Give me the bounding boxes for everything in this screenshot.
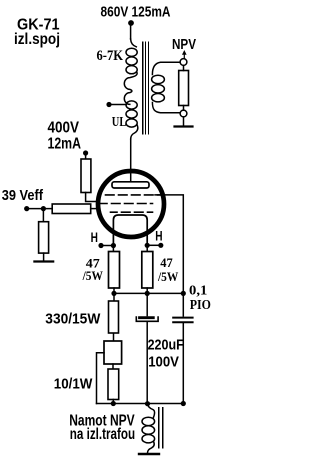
svg-text:0,1: 0,1 bbox=[189, 284, 207, 299]
svg-text:860V 125mA: 860V 125mA bbox=[101, 4, 171, 21]
resistor R 330/15W bbox=[109, 301, 119, 333]
terminal H left dot bbox=[98, 243, 103, 248]
resistor R 47/5W left bbox=[109, 252, 120, 289]
resistor R-grid horizontal bbox=[52, 204, 90, 214]
wire junction down to 39Veff resistor bbox=[42, 209, 44, 222]
inductor L NPV winding bbox=[148, 404, 155, 418]
transformer T1 core bbox=[143, 42, 149, 134]
wire bus to 330 resistor bbox=[113, 293, 116, 341]
tube grid row 1 (screen) bbox=[106, 194, 163, 196]
node bottom bus middle bbox=[145, 401, 150, 406]
transformer T1 primary top half (6-7K winding) bbox=[131, 39, 137, 47]
node UL tap terminal dot bbox=[106, 102, 111, 107]
svg-text:/5W: /5W bbox=[157, 269, 178, 284]
node 39Veff terminal dot bbox=[24, 206, 29, 211]
node bottom bus right bbox=[181, 401, 186, 406]
node 860V terminal dot bbox=[128, 20, 134, 26]
wire grid resistor to tube bbox=[91, 208, 99, 210]
resistor R 10/1W bbox=[108, 369, 119, 400]
transformer T1 secondary winding (NPV) bbox=[152, 62, 180, 74]
wire NPV bottom to ground bbox=[183, 117, 185, 126]
svg-text:330/15W: 330/15W bbox=[45, 311, 101, 328]
ground 39Veff bbox=[34, 260, 53, 262]
node bottom bus left bbox=[111, 401, 116, 406]
tube filament bbox=[113, 215, 147, 246]
node filament left junction bbox=[111, 243, 116, 248]
node bus left bbox=[111, 291, 116, 296]
svg-text:UL: UL bbox=[112, 115, 127, 130]
svg-text:100V: 100V bbox=[148, 353, 179, 370]
NPV leader arrow bbox=[183, 53, 185, 59]
wire 10/1W to bottom bus bbox=[112, 400, 114, 404]
wire anode lead from transformer to plate bbox=[130, 139, 132, 182]
inductor L core bbox=[159, 408, 163, 449]
node 400V terminal dot bbox=[83, 150, 88, 155]
wire 39Veff terminal to junction bbox=[27, 208, 53, 210]
tube grid row 3 bbox=[111, 211, 153, 213]
wire UL tap bbox=[109, 104, 126, 106]
wire filament left to resistor bbox=[112, 246, 114, 252]
svg-text:/5W: /5W bbox=[82, 268, 103, 283]
node bus middle bbox=[145, 291, 150, 296]
ground NPV bbox=[175, 125, 193, 127]
resistor R-39Veff bbox=[39, 222, 49, 253]
resistor R-400V bbox=[81, 159, 91, 193]
wire 400V terminal to resistor bbox=[85, 153, 87, 159]
wire H left bbox=[101, 245, 113, 247]
svg-text:220uF: 220uF bbox=[148, 337, 184, 354]
wire 220uF bottom lead bbox=[146, 321, 148, 403]
wire pot to 10/1W bbox=[112, 364, 114, 369]
wire 39Veff resistor to ground bbox=[43, 253, 45, 261]
wire H right bbox=[147, 244, 161, 246]
wire 47 resistors to cathode bus bbox=[114, 288, 147, 293]
svg-text:47: 47 bbox=[160, 255, 173, 270]
node junction 39Veff bbox=[41, 206, 46, 211]
terminal NPV top bbox=[180, 59, 187, 66]
tube grid row 2 (control) bbox=[100, 203, 153, 205]
wire screen grid to right rail bbox=[155, 195, 183, 316]
svg-text:400V: 400V bbox=[48, 119, 80, 136]
svg-text:na izl.trafou: na izl.trafou bbox=[70, 426, 135, 443]
wire 400V resistor to grid bbox=[86, 193, 97, 202]
svg-text:H: H bbox=[91, 230, 98, 245]
svg-text:6-7K: 6-7K bbox=[97, 48, 124, 64]
svg-text:10/1W: 10/1W bbox=[54, 377, 93, 393]
svg-text:izl.spoj: izl.spoj bbox=[14, 31, 60, 48]
wire bottom bus bbox=[97, 403, 184, 405]
capacitor C 0,1 PIO bbox=[173, 318, 192, 323]
node filament right junction bbox=[145, 243, 150, 248]
terminal H right dot bbox=[158, 243, 163, 248]
transformer T1 primary bottom half (UL winding) bbox=[126, 101, 137, 109]
ground NPV winding bbox=[139, 453, 159, 455]
terminal NPV bottom bbox=[180, 110, 187, 117]
svg-text:H: H bbox=[155, 229, 162, 244]
svg-text:PIO: PIO bbox=[190, 298, 211, 313]
transformer T1 primary tap section (UL tap bumps) bbox=[124, 72, 137, 105]
capacitor C 220uF cup bbox=[136, 317, 158, 321]
wire 860V to transformer primary bbox=[130, 24, 132, 39]
node bus right bbox=[181, 291, 186, 296]
svg-text:39 Veff: 39 Veff bbox=[2, 188, 43, 204]
wire pot wiper tap bbox=[97, 353, 105, 404]
wire filament right to resistor bbox=[146, 245, 148, 251]
resistor R 47/5W right bbox=[142, 252, 153, 289]
svg-text:12mA: 12mA bbox=[48, 136, 82, 153]
wire cathode bus bbox=[114, 292, 183, 294]
wire NPV resistor leads bbox=[183, 66, 185, 111]
potentiometer box bbox=[104, 341, 122, 364]
tube anode plate bbox=[112, 182, 149, 188]
capacitor C 220uF plate bbox=[140, 316, 154, 319]
wire PIO bottom lead bbox=[182, 323, 184, 403]
tube V1 GK-71 envelope bbox=[98, 171, 164, 237]
wire 220uF top lead bbox=[146, 293, 148, 315]
resistor R-NPV bbox=[179, 71, 189, 106]
